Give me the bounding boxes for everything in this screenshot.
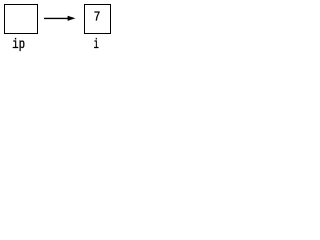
arrowhead [68,16,76,21]
pointer box ip [5,5,38,34]
arrow shaft [44,17,69,19]
variable box i [85,5,111,34]
svg-text:7: 7 [94,11,101,26]
svg-text:i: i [94,38,99,53]
svg-text:ip: ip [12,38,25,53]
